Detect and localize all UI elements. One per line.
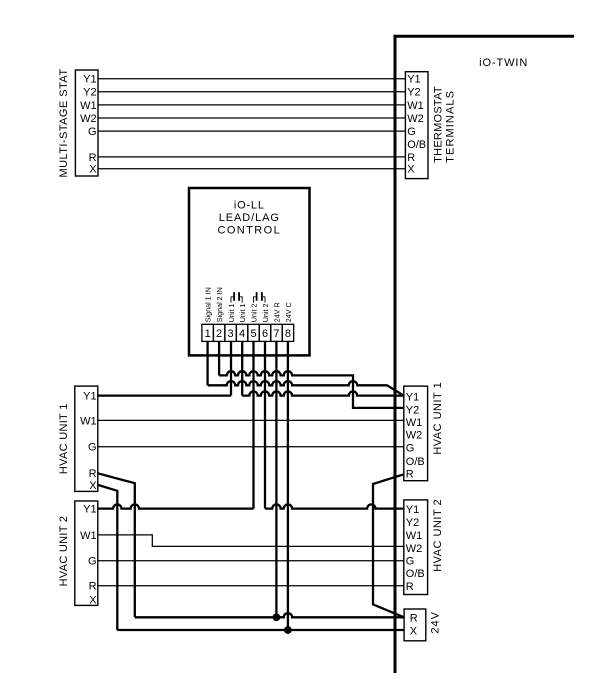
svg-text:Y2: Y2 <box>406 517 419 529</box>
svg-text:HVAC UNIT 1: HVAC UNIT 1 <box>58 403 70 474</box>
svg-text:iO-LL: iO-LL <box>234 200 265 212</box>
svg-text:W1: W1 <box>406 417 423 429</box>
svg-text:TERMINALS: TERMINALS <box>445 90 457 163</box>
svg-text:THERMOSTAT: THERMOSTAT <box>433 86 445 163</box>
svg-text:G: G <box>88 442 97 454</box>
svg-text:24V C: 24V C <box>284 302 293 322</box>
svg-text:Y2: Y2 <box>83 87 96 99</box>
svg-text:CONTROL: CONTROL <box>218 224 282 236</box>
svg-text:G: G <box>406 556 415 568</box>
svg-text:Signal 1 IN: Signal 1 IN <box>204 287 213 322</box>
svg-text:Y1: Y1 <box>83 74 96 86</box>
svg-text:G: G <box>406 443 415 455</box>
svg-text:G: G <box>88 126 97 138</box>
svg-text:HVAC UNIT 2: HVAC UNIT 2 <box>58 516 70 587</box>
svg-text:4: 4 <box>239 328 245 340</box>
svg-text:R: R <box>406 468 414 480</box>
svg-text:R: R <box>89 152 97 164</box>
svg-text:iO-TWIN: iO-TWIN <box>479 57 528 69</box>
svg-text:W2: W2 <box>407 113 424 125</box>
svg-text:Y2: Y2 <box>406 404 419 416</box>
svg-text:W2: W2 <box>406 543 423 555</box>
svg-text:HVAC UNIT 2: HVAC UNIT 2 <box>432 499 444 572</box>
svg-text:LEAD/LAG: LEAD/LAG <box>219 212 280 224</box>
svg-text:R: R <box>407 152 415 164</box>
svg-text:HVAC UNIT 1: HVAC UNIT 1 <box>432 382 444 455</box>
svg-text:Unit 2: Unit 2 <box>261 304 270 323</box>
svg-text:24V: 24V <box>430 611 442 634</box>
svg-text:R: R <box>410 612 418 624</box>
svg-text:7: 7 <box>273 328 279 340</box>
svg-text:Y2: Y2 <box>407 87 420 99</box>
svg-text:3: 3 <box>228 328 234 340</box>
svg-text:Y1: Y1 <box>406 504 419 516</box>
svg-text:W1: W1 <box>80 415 97 427</box>
svg-text:24V R: 24V R <box>272 302 281 322</box>
svg-text:5: 5 <box>250 328 256 340</box>
svg-text:X: X <box>89 480 97 492</box>
svg-text:O/B: O/B <box>406 568 425 580</box>
svg-text:Signal 2 IN: Signal 2 IN <box>215 287 224 322</box>
svg-text:Y1: Y1 <box>407 74 420 86</box>
svg-text:X: X <box>407 164 415 176</box>
svg-text:O/B: O/B <box>407 139 426 151</box>
svg-text:MULTI-STAGE STAT: MULTI-STAGE STAT <box>58 68 70 177</box>
svg-text:X: X <box>410 625 418 637</box>
svg-text:W1: W1 <box>407 100 424 112</box>
svg-text:1: 1 <box>205 328 211 340</box>
svg-text:6: 6 <box>262 328 268 340</box>
svg-text:W1: W1 <box>80 100 97 112</box>
svg-text:G: G <box>407 126 416 138</box>
svg-text:W1: W1 <box>80 530 97 542</box>
svg-text:Y1: Y1 <box>83 391 96 403</box>
svg-text:R: R <box>89 468 97 480</box>
svg-text:O/B: O/B <box>406 456 425 468</box>
svg-text:2: 2 <box>216 328 222 340</box>
svg-text:W1: W1 <box>406 530 423 542</box>
svg-text:Unit 2: Unit 2 <box>249 304 258 323</box>
svg-text:W2: W2 <box>80 113 97 125</box>
svg-text:W2: W2 <box>406 430 423 442</box>
svg-text:R: R <box>406 581 414 593</box>
svg-text:G: G <box>88 556 97 568</box>
svg-text:Y1: Y1 <box>83 504 96 516</box>
svg-text:8: 8 <box>285 328 291 340</box>
svg-text:R: R <box>89 581 97 593</box>
svg-text:Unit 1: Unit 1 <box>227 304 236 323</box>
svg-text:X: X <box>89 164 97 176</box>
svg-text:X: X <box>89 595 97 607</box>
svg-text:Unit 1: Unit 1 <box>238 304 247 323</box>
svg-text:Y1: Y1 <box>406 392 419 404</box>
